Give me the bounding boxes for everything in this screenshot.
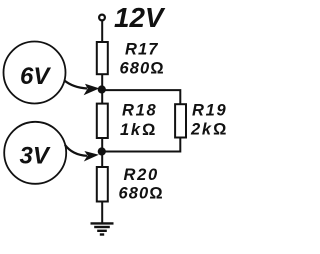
- svg-text:R17: R17: [125, 41, 159, 59]
- svg-text:R20: R20: [124, 166, 159, 184]
- svg-text:R18: R18: [122, 102, 157, 120]
- svg-text:3V: 3V: [20, 142, 51, 169]
- svg-text:680Ω: 680Ω: [120, 59, 165, 77]
- svg-text:680Ω: 680Ω: [119, 184, 164, 202]
- svg-text:1kΩ: 1kΩ: [120, 121, 157, 139]
- svg-text:2kΩ: 2kΩ: [190, 120, 228, 138]
- svg-text:6V: 6V: [20, 63, 51, 90]
- svg-text:12V: 12V: [114, 2, 166, 33]
- svg-text:R19: R19: [192, 102, 227, 120]
